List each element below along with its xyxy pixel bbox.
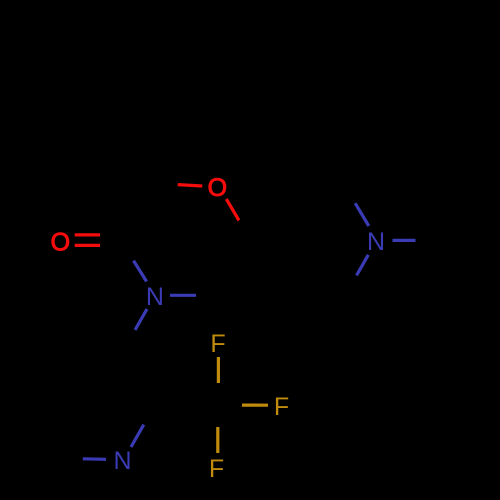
wire: pyridine C5p-C6p carbon	[26, 402, 58, 458]
wire: bond N4-C5 blue half	[170, 294, 196, 297]
wire: bond N7-Cb blue half	[357, 255, 369, 276]
svg-text:O: O	[208, 174, 227, 202]
wire: piperidine Cb-Cy carbon	[286, 300, 344, 303]
wire: carbonyl C3=O2 double bond carbon halves	[100, 233, 120, 236]
wire: bond C2p-CF3C carbon	[156, 404, 219, 405]
wire: bond CF3C-Fbottom carbon half	[216, 405, 220, 427]
wire: pyridine C3p-C4p carbon	[58, 346, 123, 347]
wire: bond O1-C6spiro red half	[226, 199, 239, 221]
wire: piperidine Cy-C6spiro carbon	[255, 240, 286, 300]
wire: bond N7-Cb carbon half	[344, 276, 357, 299]
wire: bond C3-N4 carbon half	[120, 241, 133, 261]
wire: bond Ca-N7 blue half	[355, 203, 369, 226]
wire: piperidine C6spiro-Cx carbon	[255, 186, 286, 240]
wire: bond O1-C2 carbon half	[155, 183, 178, 185]
svg-text:N: N	[367, 228, 385, 256]
wire: bond CF3C-Fright gold half	[240, 404, 268, 407]
wire: bond N1p-C2p carbon half	[144, 404, 156, 425]
svg-text:F: F	[209, 455, 224, 483]
wire: bond C6p-N1p carbon half	[58, 456, 83, 460]
svg-text:N: N	[146, 283, 164, 311]
wire: bond N7-CH3 carbon half	[416, 238, 439, 242]
wire: bond C2-C3 carbon	[120, 183, 155, 241]
wire: carbonyl C3=O2 double bond red halves	[75, 233, 102, 236]
svg-text:F: F	[274, 393, 289, 421]
wire: bond O1-C6spiro carbon half	[239, 221, 255, 241]
wire: bond CF3C-Ftop carbon half	[217, 383, 220, 405]
wire: bond CF3C-Fbottom gold half	[216, 427, 219, 453]
svg-text:N: N	[113, 447, 131, 475]
wire: pyridine C4p-C5p carbon	[26, 346, 58, 402]
svg-text:O: O	[51, 228, 70, 256]
wire: bond N7-CH3 blue half	[393, 239, 416, 242]
wire: bond N4-C5 carbon half	[196, 293, 222, 296]
wire: pyridine C3p-C2p carbon	[123, 347, 156, 404]
wire: bond C5-C6spiro carbon	[222, 240, 255, 295]
wire: bond C6p-N1p blue half	[83, 457, 106, 461]
wire: bond C3-N4 blue half	[134, 261, 147, 282]
wire: piperidine Cx-Ca carbon	[286, 183, 344, 186]
wire: bond N1p-C2p blue half	[131, 425, 144, 447]
wire: bond CF3C-Ftop gold half	[217, 357, 220, 383]
wire: bond CF3C-Fright carbon half	[219, 403, 243, 406]
wire: bond Ca-N7 carbon half	[344, 183, 355, 203]
wire: bond N4-C3pyr carbon half	[123, 330, 135, 347]
wire: bond O1-C2 red half	[178, 185, 203, 186]
wire: bond N4-C3pyr blue half	[135, 309, 147, 330]
svg-text:F: F	[210, 330, 225, 358]
